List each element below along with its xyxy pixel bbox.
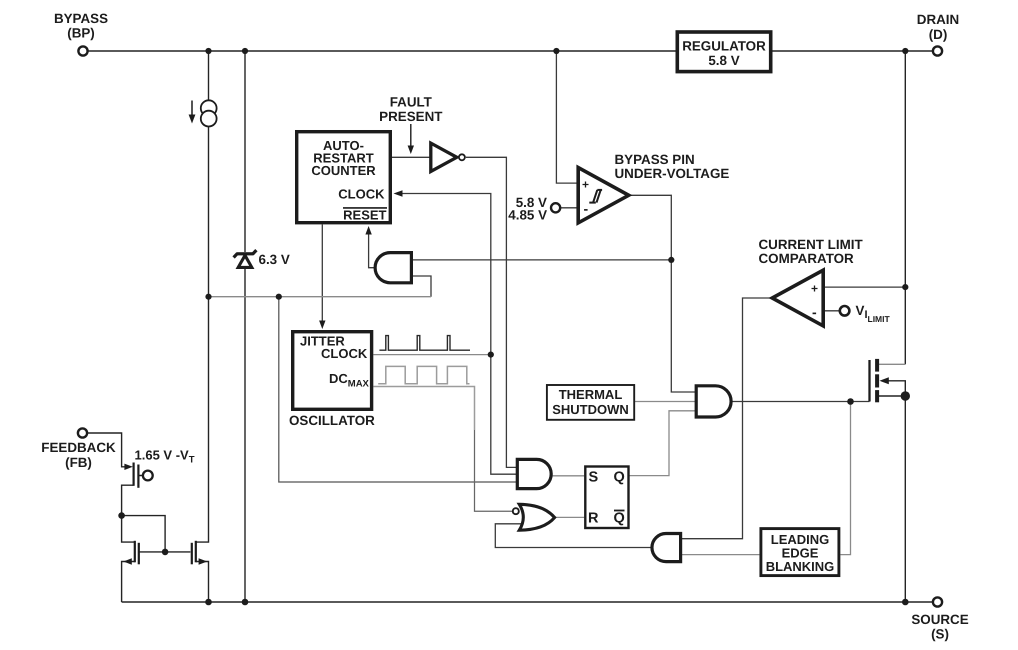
wire S-AND output to latch S	[552, 475, 585, 477]
terminal FEEDBACK (FB)	[78, 428, 87, 437]
node dot y296 x208	[205, 294, 211, 300]
node dot drain tap current limit	[902, 284, 908, 290]
box regulator 5.8V	[677, 32, 770, 72]
wire oscillator jitter output	[373, 354, 491, 356]
wire jitter clock vertical to S-AND mid input	[491, 355, 518, 475]
svg-text:CLOCK: CLOCK	[321, 346, 368, 361]
arrow into RESET input	[365, 226, 371, 235]
wire reset AND output up to RESET	[369, 232, 375, 268]
terminal BYPASS (BP)	[78, 46, 87, 55]
wire MOSFET source lead	[879, 395, 905, 397]
latch box S/R	[585, 467, 628, 529]
hysteresis symbol	[589, 190, 602, 203]
wire OR output to latch R	[555, 516, 585, 518]
wire top bus right (regulator to drain)	[772, 50, 933, 52]
node dot top bus x905	[902, 48, 908, 54]
svg-text:COUNTER: COUNTER	[311, 163, 376, 178]
wire CL comparator minus input to VILIMIT terminal	[824, 310, 840, 312]
svg-text:S: S	[589, 470, 599, 486]
wire thermal shutdown output to thermal-AND centre input	[635, 401, 697, 403]
terminal DRAIN (D)	[933, 46, 942, 55]
wire mirror right source to bottom bus	[196, 562, 209, 603]
svg-text:BYPASS PIN: BYPASS PIN	[615, 152, 695, 167]
svg-text:COMPARATOR: COMPARATOR	[759, 251, 855, 266]
wire MOSFET body lead	[888, 381, 905, 396]
OR gate R input	[519, 504, 554, 530]
svg-text:-: -	[812, 304, 817, 320]
svg-text:BLANKING: BLANKING	[766, 559, 835, 574]
wire vertical x245 lower (zener to bottom bus)	[244, 268, 246, 602]
terminal 5.8V/4.85V reference	[551, 203, 560, 212]
svg-text:UNDER-VOLTAGE: UNDER-VOLTAGE	[615, 166, 730, 181]
wire gate node down to LEB right side	[840, 402, 850, 555]
node dot top bus x245	[242, 48, 248, 54]
box auto-restart counter U1	[297, 132, 391, 223]
node dot mirror gate node	[162, 549, 169, 556]
wire x278 vertical to S-AND bottom input	[279, 297, 518, 482]
node dot y296 x278	[276, 294, 282, 300]
wire vertical x208 lower (current source to mirror drain)	[196, 127, 209, 543]
wire CL comparator plus input from drain line	[824, 286, 906, 288]
svg-text:OSCILLATOR: OSCILLATOR	[289, 413, 375, 428]
mirror Q3 source arrow	[123, 558, 132, 564]
svg-text:+: +	[582, 178, 589, 192]
wire mirror left source to bottom bus	[122, 562, 135, 603]
svg-text:6.3 V: 6.3 V	[259, 252, 290, 267]
terminal VILIMIT	[840, 306, 850, 316]
MOSFET output Q1 gate bar	[868, 360, 870, 402]
svg-text:FEEDBACK: FEEDBACK	[41, 440, 116, 455]
arrow into oscillator top	[319, 321, 325, 330]
terminal SOURCE (S)	[933, 597, 942, 606]
svg-text:4.85 V: 4.85 V	[508, 208, 547, 223]
box oscillator	[293, 332, 372, 410]
wire ARC clock-down to oscillator	[321, 225, 323, 324]
wire bottom bus	[122, 601, 933, 603]
inverter (fault present buffer)	[431, 143, 457, 171]
svg-text:(BP): (BP)	[67, 26, 95, 41]
current source I1 (two circles)	[201, 100, 217, 116]
svg-text:REGULATOR: REGULATOR	[682, 39, 766, 54]
svg-text:DRAIN: DRAIN	[917, 12, 959, 27]
wire MOSFET source down to bottom bus	[904, 396, 906, 602]
waveform jitter clock	[379, 336, 470, 351]
AND gate thermal (right facing, 3 input)	[696, 386, 731, 417]
wire LEB-AND bottom input from LEB box	[681, 554, 760, 556]
wire horizontal y296 (BP node bus)	[209, 296, 432, 298]
svg-text:CLOCK: CLOCK	[338, 187, 385, 202]
FB transistor source arrow	[124, 464, 132, 470]
svg-text:-: -	[584, 201, 589, 217]
svg-text:SHUTDOWN: SHUTDOWN	[552, 402, 629, 417]
wire top bus left (BP to regulator)	[88, 50, 677, 52]
svg-text:+: +	[811, 282, 818, 296]
svg-text:(D): (D)	[929, 27, 948, 42]
mirror transistor Q3 (left)	[135, 541, 139, 565]
node dot gate node LEB tap	[847, 398, 854, 405]
svg-text:Q: Q	[614, 470, 625, 486]
svg-text:THERMAL: THERMAL	[559, 387, 623, 402]
current source arrow	[191, 101, 193, 117]
wire drain vertical to MOSFET	[904, 51, 906, 364]
wire vertical x245 upper (bus to zener)	[244, 51, 246, 252]
node dot MOSFET source body	[901, 391, 910, 400]
wire LEB-AND output to OR bottom input	[495, 524, 651, 548]
MOSFET output Q1 channel dashes	[875, 359, 879, 402]
AND gate S input (right facing, 3 input)	[517, 459, 551, 488]
AND gate reset (left facing)	[375, 253, 411, 283]
wire ARC output to inverter	[392, 156, 430, 158]
node dot bottom bus x905	[902, 599, 909, 606]
svg-text:BYPASS: BYPASS	[54, 11, 108, 26]
FB transistor Q2 (p-channel)	[134, 463, 143, 488]
wires-main	[87, 51, 933, 602]
wire mirror gate line	[139, 551, 191, 553]
OR gate input bubble	[513, 508, 519, 514]
wire mirror node to gate node	[122, 516, 166, 552]
mirror Q4 source arrow	[199, 558, 208, 564]
node dot top bus x208	[205, 48, 211, 54]
svg-text:Q: Q	[614, 511, 625, 527]
wire UV comparator minus input from reference terminal	[560, 207, 577, 209]
wire reset-AND bottom input from y296 bus	[411, 276, 431, 297]
waveform DCMAX	[378, 366, 469, 383]
svg-text:R: R	[588, 511, 599, 527]
wire CL comparator output down to LEB-AND top input	[681, 298, 771, 539]
svg-text:RESET: RESET	[343, 208, 386, 223]
MOSFET output Q1 body arrow	[880, 377, 889, 384]
box leading edge blanking	[761, 529, 839, 576]
AND gate LEB (left facing)	[652, 534, 681, 562]
node dot bottom bus x245	[242, 599, 249, 606]
arrow into CLOCK input	[394, 190, 403, 197]
svg-text:5.8 V: 5.8 V	[708, 53, 739, 68]
svg-text:(S): (S)	[931, 627, 949, 642]
mirror transistor Q4 (right)	[192, 541, 196, 565]
node dot bottom bus x208	[205, 599, 212, 606]
wire FB terminal to FB transistor source	[87, 433, 126, 467]
svg-text:SOURCE: SOURCE	[911, 612, 968, 627]
wire UV comparator plus input from top bus	[556, 51, 577, 183]
node dot jitter clock x490	[488, 352, 494, 358]
wire MOSFET drain lead	[879, 363, 905, 365]
node dot UV output branch	[668, 257, 674, 263]
node dot top bus x556	[553, 48, 559, 54]
wire DCMAX lower segment to OR bubble	[475, 430, 513, 511]
arrow fault present	[410, 124, 412, 147]
wire UV comp output down (to reset-AND top input and thermal-AND)	[629, 195, 696, 392]
wire vertical x208 upper (bus to current source)	[208, 51, 210, 100]
wire inverter output to S-AND top input	[466, 157, 518, 467]
box thermal shutdown	[547, 385, 634, 420]
wire clock feedback to ARC CLOCK input	[399, 194, 491, 355]
svg-text:CURRENT LIMIT: CURRENT LIMIT	[759, 237, 864, 252]
wire latch Q up to thermal-AND bottom input	[630, 411, 697, 476]
zener diode 6.3V	[234, 250, 257, 267]
wire oscillator DCMAX output to OR top input	[373, 387, 474, 431]
wire thermal-AND output to MOSFET gate	[731, 401, 869, 403]
svg-text:FAULT: FAULT	[390, 95, 433, 110]
svg-text:PRESENT: PRESENT	[379, 109, 443, 124]
wire mirror left drain	[122, 516, 135, 543]
svg-text:(FB): (FB)	[65, 455, 92, 470]
comparator current limit U3 (left pointing)	[772, 270, 823, 326]
node dot FB drain node	[118, 512, 125, 519]
comparator bypass-pin under-voltage U2	[578, 168, 629, 223]
wire FB transistor drain down to mirror node	[122, 485, 134, 515]
wire reset-AND top input from UV line	[411, 259, 671, 261]
